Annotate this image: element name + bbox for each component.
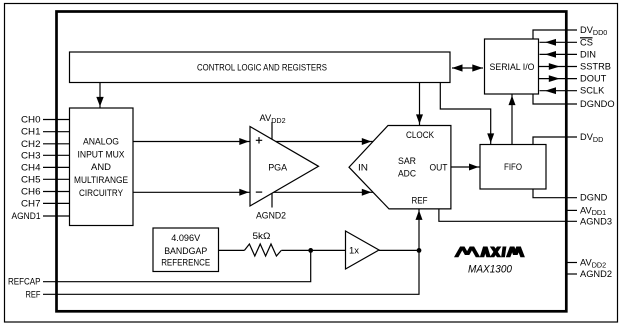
bandgap reference block U-REF [153, 228, 219, 272]
pin DGND wire [533, 189, 577, 198]
pin CH7 [43, 202, 70, 204]
wire bandgap to resistor [219, 249, 245, 251]
pin CH6 [43, 191, 70, 193]
arrowhead into FIFO [487, 133, 494, 143]
wire ADC out to FIFO [451, 166, 480, 168]
MAXIM logo [454, 247, 525, 258]
arrowhead CS into serial [545, 39, 556, 46]
svg-text:BANDGAP: BANDGAP [164, 246, 207, 256]
svg-text:CH5: CH5 [21, 174, 41, 184]
arrowhead into mux [96, 97, 103, 107]
control logic and registers block U-CTRL [70, 52, 451, 83]
svg-text:PGA: PGA [268, 163, 288, 173]
pin CH3 [43, 154, 70, 156]
wire resistor to buffer input [281, 249, 345, 251]
arrowhead into FIFO in [469, 164, 479, 171]
PGA AVDD2 stub [271, 122, 273, 140]
svg-text:REFERENCE: REFERENCE [161, 258, 210, 268]
label ANALOG INPUT MUX AND MULTIRANGE CIRCUITRY [74, 137, 128, 198]
svg-text:ADC: ADC [398, 169, 416, 179]
svg-text:CH4: CH4 [21, 162, 41, 172]
svg-text:SERIAL I/O: SERIAL I/O [490, 62, 535, 72]
wire PGA to ADC lower [274, 191, 373, 193]
PGA minus input symbol [256, 191, 262, 193]
svg-text:CH2: CH2 [21, 139, 41, 149]
pin CS wire [540, 41, 578, 43]
svg-text:REF: REF [26, 289, 41, 299]
PGA AGND2 stub [271, 194, 273, 208]
wire FIFO to serial I/O [511, 94, 513, 145]
svg-text:CH7: CH7 [21, 198, 41, 208]
pin CH0 [43, 119, 70, 121]
svg-text:DGNDO: DGNDO [580, 99, 615, 109]
svg-text:OUT: OUT [430, 163, 448, 173]
svg-text:CONTROL LOGIC AND REGISTERS: CONTROL LOGIC AND REGISTERS [197, 62, 327, 72]
svg-text:REFCAP: REFCAP [8, 277, 41, 287]
pin AGND1 [43, 215, 70, 217]
svg-text:DGND: DGND [580, 193, 608, 203]
svg-text:5kΩ: 5kΩ [253, 231, 271, 241]
pin DVDD0 wire [533, 30, 577, 39]
pin CH5 [43, 178, 70, 180]
svg-text:AGND2: AGND2 [580, 269, 612, 279]
wire PGA to ADC upper [276, 141, 373, 143]
svg-text:CH6: CH6 [21, 187, 41, 197]
svg-text:SAR: SAR [398, 156, 416, 166]
PGA plus input symbol [256, 137, 262, 143]
svg-text:FIFO: FIFO [504, 162, 522, 172]
SAR ADC block U-ADC [349, 126, 451, 209]
arrowhead DIN into serial [545, 51, 556, 58]
pin CH2 [43, 143, 70, 145]
wire control to ADC clock [419, 83, 421, 126]
svg-text:SSTRB: SSTRB [580, 62, 611, 72]
node junction dot REF [417, 248, 422, 253]
wire control to serial I/O bidirectional [452, 67, 483, 69]
serial I/O block U-SIO [485, 39, 539, 94]
arrowhead into PGA minus [239, 189, 249, 196]
pin CH1 [43, 131, 70, 133]
svg-text:CLOCK: CLOCK [406, 130, 435, 140]
svg-text:DOUT: DOUT [580, 74, 607, 84]
svg-text:1x: 1x [349, 246, 359, 256]
arrowhead DOUT out [549, 75, 560, 82]
svg-text:AGND3: AGND3 [580, 216, 612, 226]
wire mux to PGA plus [133, 141, 250, 143]
pin SSTRB wire [539, 66, 578, 68]
pin AGND2 wire [566, 273, 577, 275]
svg-text:REF: REF [412, 196, 428, 206]
svg-text:CH3: CH3 [21, 150, 41, 160]
arrowhead into ADC clock [416, 114, 423, 124]
svg-text:4.096V: 4.096V [171, 233, 201, 243]
buffer 1x U-BUF [346, 231, 380, 269]
pin AVDD2 wire [566, 262, 577, 264]
wire REF node down to REF pin [43, 250, 419, 294]
svg-text:CIRCUITRY: CIRCUITRY [79, 188, 123, 198]
svg-text:AGND2: AGND2 [256, 211, 286, 221]
svg-text:MULTIRANGE: MULTIRANGE [74, 175, 128, 185]
wire mux to PGA minus [133, 191, 250, 193]
wire REFCAP node down to REFCAP pin [43, 250, 311, 281]
arrowhead into PGA plus [239, 138, 249, 145]
arrowhead toward serial I/O [472, 64, 483, 71]
FIFO block U-FIFO [480, 145, 546, 190]
arrowhead into serial I/O [509, 96, 516, 106]
arrowhead SSTRB out [549, 63, 560, 70]
svg-text:MAX1300: MAX1300 [468, 264, 513, 276]
wire buffer output to REF node [379, 249, 419, 251]
arrowhead into ADC ref [416, 210, 423, 220]
svg-text:SCLK: SCLK [580, 86, 605, 96]
label 4.096V BANDGAP REFERENCE [161, 233, 210, 267]
wire control to mux [99, 83, 101, 109]
arrowhead into ADC lower [362, 189, 372, 196]
wire control to FIFO [440, 83, 490, 145]
pin DGNDO wire [533, 94, 577, 104]
svg-text:DIN: DIN [580, 49, 596, 59]
op-amp PGA U-PGA [250, 127, 319, 207]
resistor R 5k [244, 244, 281, 256]
arrowhead SCLK into serial [545, 87, 556, 94]
pin CH4 [43, 166, 70, 168]
node junction dot REFCAP [308, 248, 313, 253]
svg-text:AND: AND [91, 162, 111, 172]
pin DIN wire [540, 53, 578, 55]
svg-text:IN: IN [358, 163, 368, 173]
svg-text:CH1: CH1 [21, 127, 41, 137]
svg-text:ANALOG: ANALOG [83, 137, 119, 147]
analog input mux block U-MUX [70, 108, 134, 226]
pin AGND3 wire [439, 209, 577, 221]
pin DVDD wire [533, 137, 577, 145]
MAX1300 chip boundary [57, 12, 567, 312]
pin SCLK wire [540, 90, 578, 92]
pin AVDD1 wire [566, 209, 577, 211]
svg-text:AGND1: AGND1 [12, 211, 41, 221]
arrowhead toward control [452, 64, 463, 71]
svg-text:INPUT MUX: INPUT MUX [78, 149, 125, 159]
pin DOUT wire [539, 78, 578, 80]
arrowhead into ADC upper [362, 138, 372, 145]
wire REF node to ADC ref [418, 209, 420, 251]
svg-text:CS: CS [580, 37, 593, 47]
svg-text:CH0: CH0 [21, 115, 41, 125]
